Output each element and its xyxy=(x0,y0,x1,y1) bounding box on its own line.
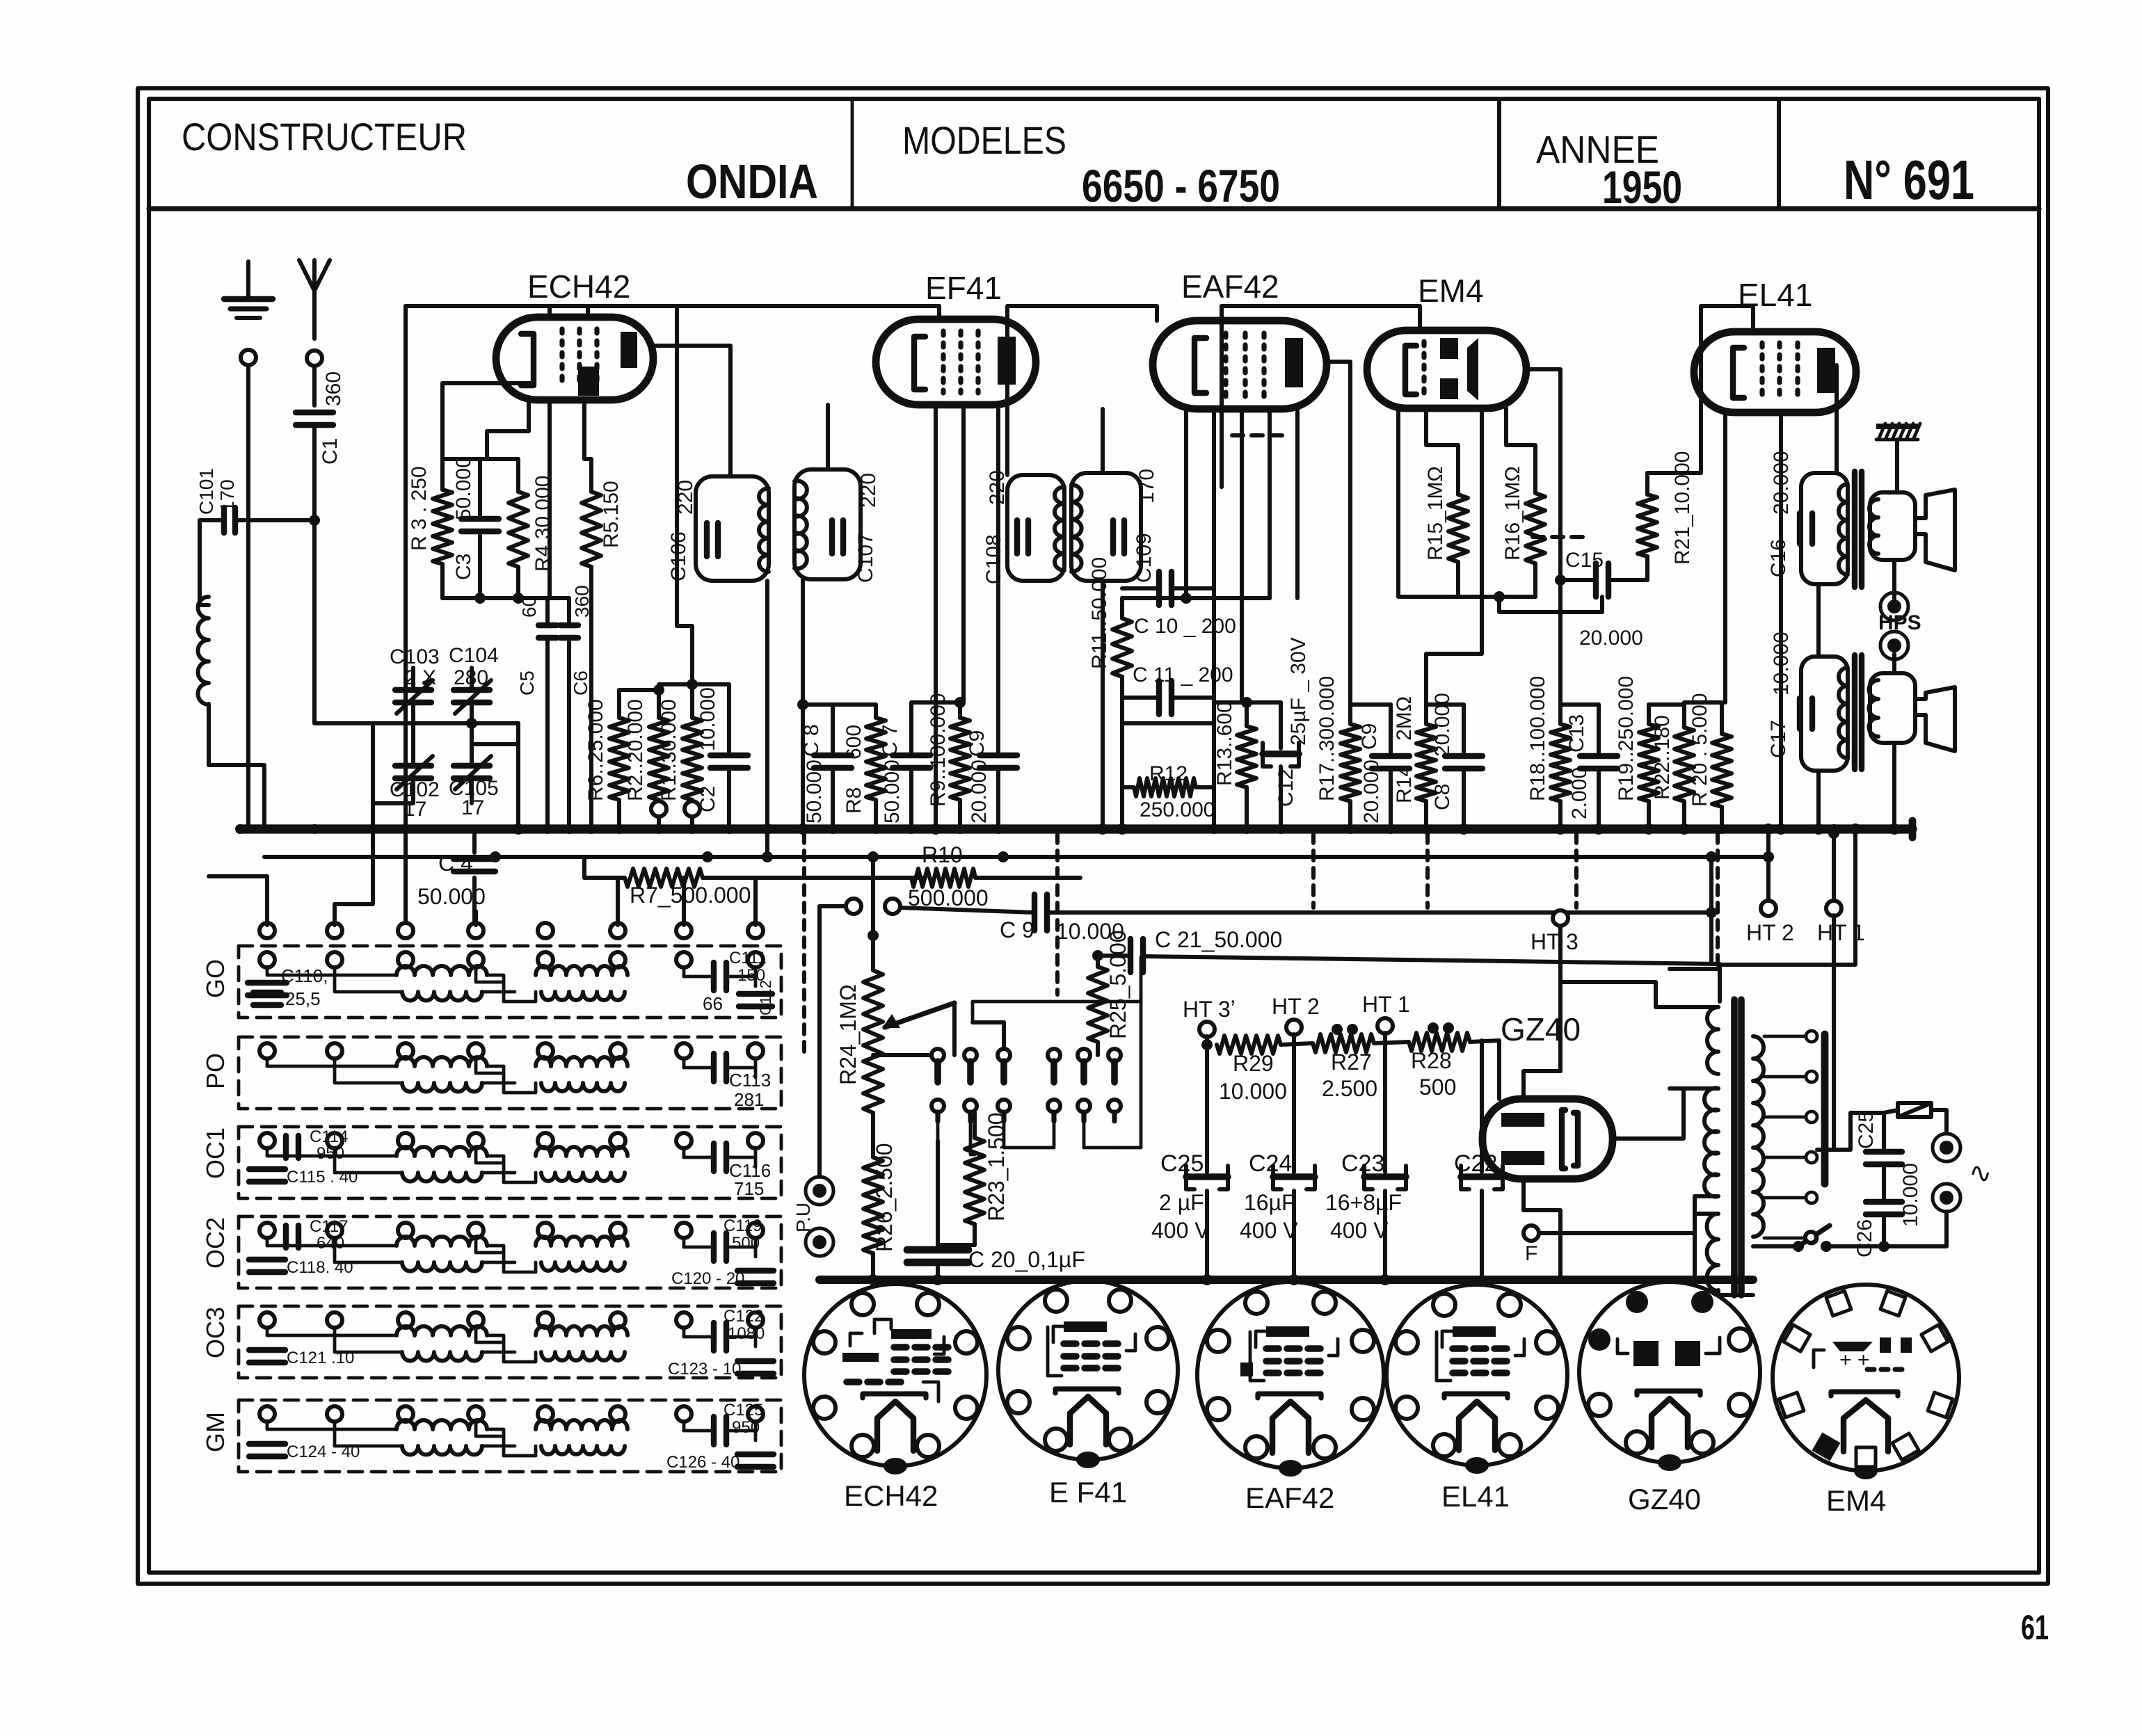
svg-text:HT 2: HT 2 xyxy=(1272,994,1320,1019)
svg-text:R28: R28 xyxy=(1411,1048,1452,1073)
R24 wiper arrow xyxy=(885,1003,954,1027)
sub bus line xyxy=(264,855,1768,859)
svg-text:C23: C23 xyxy=(1341,1150,1384,1177)
variable capacitor C102 xyxy=(395,763,431,769)
svg-text:C2: C2 xyxy=(696,786,719,812)
svg-text:C17: C17 xyxy=(1767,720,1790,758)
title divider 2 xyxy=(1497,99,1501,209)
wire EL41 cathode xyxy=(1723,412,1727,702)
svg-text:GO: GO xyxy=(201,959,230,998)
wire coupling right xyxy=(1709,857,1713,913)
svg-text:20.000: 20.000 xyxy=(1770,451,1793,515)
svg-text:20.000: 20.000 xyxy=(1431,693,1454,757)
title block divider line xyxy=(149,206,2039,211)
terminal PU bottom xyxy=(806,1228,833,1256)
OC1 capacitor C114 xyxy=(283,1136,289,1158)
svg-text:R12: R12 xyxy=(1149,762,1188,785)
svg-text:GZ40: GZ40 xyxy=(1628,1483,1701,1516)
wire right edge drop xyxy=(1853,829,1857,963)
OC3 terminals xyxy=(259,1312,275,1328)
socket diagram ECH42 xyxy=(804,1284,986,1466)
svg-text:OC3: OC3 xyxy=(201,1307,230,1358)
IF transformer T1 secondary tank C107 xyxy=(794,469,861,579)
GO transformer 2 xyxy=(536,966,628,975)
terminal HT3b xyxy=(1199,1022,1215,1037)
svg-text:C26: C26 xyxy=(1853,1219,1876,1257)
wire R17 C9b top xyxy=(1350,702,1391,707)
wire R18 C13 top xyxy=(1560,702,1599,707)
socket diagram EF41 xyxy=(998,1280,1178,1460)
capacitor C8a xyxy=(831,705,835,752)
OC2 capacitor C118 xyxy=(249,1257,285,1262)
svg-text:500: 500 xyxy=(732,1234,760,1253)
capacitor C10 xyxy=(1156,572,1162,605)
OC2 capacitor C120 xyxy=(737,1268,774,1273)
resistor R17 xyxy=(1348,705,1352,724)
terminal HPS top xyxy=(1880,593,1908,620)
resistor R12 xyxy=(1122,785,1134,789)
OC2 transformer 1 xyxy=(397,1237,487,1246)
terminal HT1b xyxy=(1377,1018,1393,1034)
wire R14 C8b top xyxy=(1426,702,1464,707)
wire transformer top xyxy=(1560,982,1718,1007)
wire R group top xyxy=(619,688,659,692)
antenna coil L101 xyxy=(198,597,209,705)
output transformer T4 tank C17 xyxy=(1801,657,1848,771)
svg-text:250.000: 250.000 xyxy=(1140,798,1215,821)
wire EF41 top entry xyxy=(937,306,941,319)
svg-text:C107: C107 xyxy=(854,533,877,583)
IF transformer T2 secondary tank C109 xyxy=(1071,473,1141,581)
svg-text:C5: C5 xyxy=(516,670,538,696)
dashed AVC wire 2 xyxy=(1533,535,1583,539)
tube EF41 xyxy=(876,319,1036,405)
terminal PU top xyxy=(806,1177,833,1205)
potentiometer R24 xyxy=(871,857,875,970)
OC3 capacitor C121 xyxy=(249,1347,285,1353)
svg-text:50.000: 50.000 xyxy=(452,456,475,520)
resistor R21 xyxy=(1645,473,1649,495)
resistor R16 xyxy=(1526,493,1545,563)
svg-text:715: 715 xyxy=(734,1178,764,1199)
variable capacitor C103 xyxy=(395,687,431,693)
wire C21 right drop xyxy=(1709,913,1713,964)
svg-text:6650 - 6750: 6650 - 6750 xyxy=(1082,160,1280,211)
wire GZ40 plates xyxy=(1524,1071,1560,1099)
svg-text:360: 360 xyxy=(571,585,593,618)
resistor R1 xyxy=(690,684,694,718)
wire PU up xyxy=(817,906,822,1177)
band box OC1 xyxy=(239,1127,781,1198)
wire T1 sec leads xyxy=(826,405,830,469)
band switch contacts xyxy=(932,1049,944,1061)
wire R13 C12 top xyxy=(1214,700,1281,705)
wire EM4 rail top xyxy=(1222,306,1420,487)
bottom bus xyxy=(820,1276,1753,1284)
svg-text:OC1: OC1 xyxy=(201,1127,230,1179)
speaker 2 coil xyxy=(1870,673,1915,743)
svg-text:E F41: E F41 xyxy=(1049,1476,1127,1509)
svg-text:R21_10.000: R21_10.000 xyxy=(1671,451,1694,565)
svg-text:EL41: EL41 xyxy=(1441,1480,1510,1513)
capacitor C20 xyxy=(936,1141,940,1245)
svg-text:C13: C13 xyxy=(1565,714,1588,753)
svg-text:220: 220 xyxy=(674,480,697,515)
terminal row above coil bank xyxy=(259,923,275,938)
tube GZ40 xyxy=(1482,1099,1613,1179)
svg-text:R2..20.000: R2..20.000 xyxy=(624,699,647,801)
wire C7 R9 top xyxy=(911,700,964,705)
wire EAF42 anode chain xyxy=(1327,362,1350,705)
svg-text:F: F xyxy=(1525,1242,1537,1265)
secondary shield bar xyxy=(1821,1034,1829,1184)
variable capacitor C105 xyxy=(454,763,490,769)
ground terminal xyxy=(241,350,256,365)
speaker 2 horn xyxy=(1915,687,1955,751)
svg-text:R 3 . 250: R 3 . 250 xyxy=(408,466,431,551)
title divider 3 xyxy=(1777,99,1781,209)
svg-text:C9: C9 xyxy=(1358,723,1381,750)
svg-text:C114: C114 xyxy=(310,1127,349,1146)
fuse xyxy=(1898,1103,1931,1117)
output transformer T4 core xyxy=(1852,655,1857,769)
power transformer secondary xyxy=(1753,1036,1764,1237)
dashed AVC wire xyxy=(1232,433,1287,437)
OC3 transformer 1 xyxy=(397,1326,487,1335)
svg-text:950: 950 xyxy=(732,1418,760,1437)
tube EL41 xyxy=(1694,332,1856,412)
svg-text:1080: 1080 xyxy=(728,1324,765,1343)
GM capacitor C124 xyxy=(249,1441,285,1447)
band box GM xyxy=(239,1400,781,1472)
svg-text:2.500: 2.500 xyxy=(1322,1076,1377,1101)
wire R22 top hook xyxy=(1684,700,1722,705)
wire HT3 rail drop xyxy=(1718,964,1722,1002)
svg-text:C25: C25 xyxy=(1160,1150,1204,1177)
svg-text:C106: C106 xyxy=(667,531,690,581)
svg-text:+ +: + + xyxy=(1839,1349,1869,1372)
svg-text:C113: C113 xyxy=(729,1070,771,1091)
resistor R3 xyxy=(440,459,445,490)
svg-text:C16: C16 xyxy=(1767,539,1790,577)
svg-text:R14: R14 xyxy=(1393,765,1416,803)
wire sub bus drop HT2 xyxy=(1766,857,1771,901)
svg-text:60: 60 xyxy=(518,596,540,618)
svg-text:500: 500 xyxy=(1419,1075,1456,1100)
svg-text:400 V: 400 V xyxy=(1330,1218,1389,1243)
svg-text:C121 .10: C121 .10 xyxy=(287,1349,354,1367)
resistor R4 xyxy=(516,459,520,492)
terminal HPS bottom xyxy=(1880,632,1908,659)
svg-text:R29: R29 xyxy=(1233,1051,1274,1076)
svg-text:66: 66 xyxy=(703,993,723,1014)
ground symbol xyxy=(246,262,250,299)
wire speaker1 down xyxy=(1892,560,1896,599)
wire speaker2 down xyxy=(1892,743,1896,829)
bus end arrow xyxy=(1909,821,1917,837)
terminal HT1 xyxy=(1826,901,1841,916)
svg-text:281: 281 xyxy=(734,1089,764,1110)
resistor R2 xyxy=(657,696,661,718)
speaker 1 coil xyxy=(1870,492,1915,560)
resistor R25 xyxy=(1096,956,1100,967)
svg-text:50.000: 50.000 xyxy=(803,759,826,823)
svg-text:C8: C8 xyxy=(1431,784,1454,810)
svg-text:C 7: C 7 xyxy=(879,724,902,757)
svg-text:C109: C109 xyxy=(1133,533,1156,583)
hatched chassis block xyxy=(1876,424,1918,429)
wire C8a R8 top xyxy=(803,702,876,707)
svg-text:R13..600: R13..600 xyxy=(1213,701,1236,786)
wire EF41 screen xyxy=(934,405,938,829)
svg-text:2 X: 2 X xyxy=(405,666,436,689)
svg-text:C3: C3 xyxy=(452,554,475,580)
svg-text:R10: R10 xyxy=(922,842,963,867)
wire EAF42 pins xyxy=(1184,409,1188,598)
wire EM4 rail xyxy=(1220,306,1224,487)
GO transformer 1 xyxy=(397,966,487,975)
PO transformer 1 xyxy=(397,1057,487,1066)
output transformer T3 core xyxy=(1852,472,1857,587)
GO terminals xyxy=(259,952,275,967)
svg-text:10.000: 10.000 xyxy=(1219,1079,1287,1104)
GM transformer 1 xyxy=(397,1420,487,1429)
wire HT rail links xyxy=(1281,1043,1313,1045)
socket diagram EL41 xyxy=(1386,1285,1567,1465)
OC3 right capacitor xyxy=(711,1323,717,1351)
inner border frame xyxy=(149,99,2039,1573)
resistor R14 xyxy=(1424,705,1428,724)
GM transformer 2 xyxy=(536,1420,628,1429)
svg-text:C 9: C 9 xyxy=(1000,917,1034,942)
band box PO xyxy=(239,1037,781,1109)
svg-text:EAF42: EAF42 xyxy=(1245,1481,1334,1514)
power transformer core xyxy=(1731,999,1738,1295)
svg-text:C103: C103 xyxy=(390,645,440,668)
svg-text:10.000: 10.000 xyxy=(696,687,719,751)
svg-text:20.000: 20.000 xyxy=(1360,759,1383,823)
svg-text:17: 17 xyxy=(403,798,426,821)
svg-text:16+8µF: 16+8µF xyxy=(1325,1190,1402,1215)
svg-text:20.000: 20.000 xyxy=(1579,627,1643,650)
wire C4 link xyxy=(472,878,477,925)
OC1 right capacitor xyxy=(711,1143,717,1171)
wire mains bottom xyxy=(1826,1212,1947,1246)
capacitor C11 xyxy=(1156,681,1162,714)
svg-text:2MΩ: 2MΩ xyxy=(1393,696,1416,741)
wire EM4 grid leads xyxy=(1398,408,1458,597)
OC1 terminals xyxy=(259,1133,275,1148)
output transformer T3 tank C16 xyxy=(1801,473,1848,584)
PO transformer 2 xyxy=(536,1057,628,1066)
svg-text:GM: GM xyxy=(201,1412,230,1452)
svg-text:61: 61 xyxy=(2021,1608,2049,1647)
wire C1 down xyxy=(312,425,317,723)
svg-text:R19..250.000: R19..250.000 xyxy=(1615,676,1638,801)
resistor R8 xyxy=(874,705,878,718)
svg-text:25µF _ 30V: 25µF _ 30V xyxy=(1287,637,1310,746)
resistor R18 xyxy=(1558,705,1562,724)
wire C10 C11 frame xyxy=(1122,721,1214,725)
wire T2 sec leads xyxy=(1101,409,1105,473)
svg-text:C104: C104 xyxy=(449,644,499,667)
PO right capacitor xyxy=(711,1054,717,1082)
svg-text:HT 1: HT 1 xyxy=(1362,992,1410,1017)
svg-text:EAF42: EAF42 xyxy=(1181,268,1279,305)
socket diagram EM4 xyxy=(1773,1285,1959,1471)
socket diagram GZ40 xyxy=(1579,1282,1760,1463)
wire HPS to speaker2 xyxy=(1892,654,1896,673)
GM terminals xyxy=(259,1406,275,1422)
antenna symbol xyxy=(312,260,317,339)
svg-text:20.000: 20.000 xyxy=(968,759,991,823)
svg-text:C117: C117 xyxy=(310,1217,349,1236)
resistor R13 xyxy=(1245,702,1249,726)
wire top rail left xyxy=(406,304,939,308)
PO terminals xyxy=(259,1043,275,1059)
svg-text:170: 170 xyxy=(216,479,238,512)
svg-text:400 V: 400 V xyxy=(1151,1218,1210,1243)
svg-text:C12: C12 xyxy=(1274,769,1297,807)
svg-text:C124 - 40: C124 - 40 xyxy=(287,1442,360,1461)
mains switch xyxy=(1793,1241,1804,1252)
OC1 capacitor C115 xyxy=(249,1166,285,1172)
svg-text:R7_500.000: R7_500.000 xyxy=(630,883,751,908)
svg-text:C 4: C 4 xyxy=(438,851,473,876)
svg-text:C 21_50.000: C 21_50.000 xyxy=(1155,927,1282,952)
svg-text:C 20_0,1µF: C 20_0,1µF xyxy=(968,1247,1085,1272)
electrolytic C24 xyxy=(1292,1043,1296,1172)
svg-text:ECH42: ECH42 xyxy=(527,268,630,305)
svg-text:R16_1MΩ: R16_1MΩ xyxy=(1501,466,1524,561)
capacitor C6 xyxy=(560,622,578,628)
svg-text:CONSTRUCTEUR: CONSTRUCTEUR xyxy=(182,115,467,159)
OC2 right capacitor xyxy=(711,1233,717,1261)
wire ECH42 anode to T1 xyxy=(653,346,730,476)
svg-text:C1: C1 xyxy=(319,438,342,465)
OC3 capacitor C123 xyxy=(737,1358,774,1364)
capacitor C9a xyxy=(980,753,1017,758)
svg-text:ONDIA: ONDIA xyxy=(686,154,818,209)
electrolytic C25 xyxy=(1205,1045,1209,1172)
GO capacitor C112 xyxy=(739,991,772,997)
svg-text:C126 - 40: C126 - 40 xyxy=(666,1453,740,1472)
wire C101 branch xyxy=(200,520,209,605)
wire EL41 screen xyxy=(1779,412,1783,829)
svg-text:2.000: 2.000 xyxy=(1568,767,1591,819)
power transformer primary xyxy=(1707,1007,1718,1074)
wire ECH42 anode load drop xyxy=(675,306,679,626)
wire bias bottom xyxy=(442,596,569,600)
IF transformer T1 tank C106 xyxy=(696,476,769,581)
svg-text:R25_5.000: R25_5.000 xyxy=(1105,930,1130,1039)
resistor R11 xyxy=(1120,598,1124,618)
wire T1 bottom xyxy=(765,581,769,857)
svg-text:C120 - 20: C120 - 20 xyxy=(671,1269,744,1288)
resistor R28 xyxy=(1409,1033,1470,1051)
wire antenna down xyxy=(312,366,317,405)
svg-text:C9: C9 xyxy=(966,730,989,757)
resistor R22 xyxy=(1682,702,1686,728)
tube EAF42 xyxy=(1153,321,1327,409)
svg-text:600: 600 xyxy=(842,725,865,759)
svg-text:R9..100.000: R9..100.000 xyxy=(927,693,950,807)
resistor R23 xyxy=(973,1113,977,1138)
wire EAF42 rail xyxy=(1007,306,1157,475)
svg-text:220: 220 xyxy=(857,473,880,508)
antenna terminal xyxy=(307,351,322,366)
svg-text:R18..100.000: R18..100.000 xyxy=(1526,676,1549,801)
svg-text:MODELES: MODELES xyxy=(902,118,1066,162)
OC2 capacitor C117 xyxy=(283,1225,289,1248)
electrolytic C22 xyxy=(1480,1040,1484,1172)
svg-text:2 µF: 2 µF xyxy=(1159,1190,1204,1215)
capacitor C3 xyxy=(478,490,482,515)
capacitor C2 xyxy=(727,684,731,752)
wire chassis to speaker xyxy=(1895,440,1899,492)
resistor R9 xyxy=(958,702,962,718)
svg-text:C123 - 10: C123 - 10 xyxy=(668,1360,741,1379)
resistor R27 xyxy=(1313,1034,1374,1052)
resistor R5 xyxy=(584,400,591,492)
wire EF41 anode xyxy=(996,405,1000,752)
wire C25b link xyxy=(1827,1113,1884,1150)
capacitor C26 xyxy=(1866,1199,1902,1205)
svg-text:EF41: EF41 xyxy=(925,270,1002,306)
svg-text:EM4: EM4 xyxy=(1418,273,1484,309)
svg-text:C111: C111 xyxy=(729,949,767,967)
wire EL41 rail xyxy=(1647,306,1753,473)
capacitor C21 xyxy=(1128,939,1133,972)
mains terminal top xyxy=(1933,1134,1960,1162)
wire transformer bottom xyxy=(1718,1290,1753,1295)
resistor R10 xyxy=(807,876,911,880)
svg-text:R6..25.000: R6..25.000 xyxy=(584,699,607,801)
ground bus xyxy=(240,824,1912,833)
svg-text:C110,: C110, xyxy=(281,965,328,986)
svg-text:N° 691: N° 691 xyxy=(1844,149,1974,211)
svg-text:25,5: 25,5 xyxy=(285,988,321,1009)
svg-text:1950: 1950 xyxy=(1602,161,1682,213)
svg-text:R17..300.000: R17..300.000 xyxy=(1316,676,1338,801)
title divider 1 xyxy=(851,99,854,209)
wire GZ40 anode right xyxy=(1613,1088,1684,1139)
GO capacitor C110 xyxy=(248,980,287,986)
svg-text:C 10 _ 200: C 10 _ 200 xyxy=(1134,615,1236,638)
svg-text:C6: C6 xyxy=(570,670,591,696)
svg-text:16µF: 16µF xyxy=(1244,1190,1295,1215)
terminal F xyxy=(1524,1225,1539,1241)
wire switch top rail xyxy=(973,1020,1004,1024)
svg-text:C122: C122 xyxy=(724,1307,763,1326)
GM capacitor C126 xyxy=(737,1452,774,1457)
capacitor C15 xyxy=(1593,563,1599,597)
OC3 transformer 2 xyxy=(536,1326,628,1335)
wire HT1 down xyxy=(1832,915,1836,1150)
terminal HT2 xyxy=(1761,901,1776,916)
wire bias top xyxy=(442,457,518,461)
wire ECH42 top entries xyxy=(548,306,552,317)
svg-text:R24_1MΩ: R24_1MΩ xyxy=(836,984,861,1085)
tube EM4 xyxy=(1367,330,1526,408)
terminal pickup wire xyxy=(846,899,861,914)
svg-text:360: 360 xyxy=(322,371,345,406)
svg-text:C15: C15 xyxy=(1565,549,1604,572)
wire HT rail to GZ40 xyxy=(1497,1040,1501,1099)
IF transformer T2 tank C108 xyxy=(1007,475,1064,581)
wire drops to coil bank xyxy=(209,876,267,925)
tube ECH42 xyxy=(496,317,653,400)
